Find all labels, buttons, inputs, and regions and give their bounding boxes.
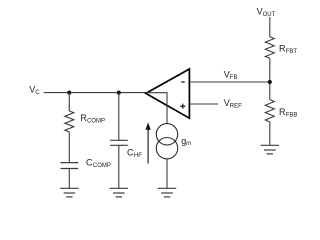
wire op-amp output to current source (L shape): [146, 93, 167, 124]
node feedback junction: [268, 80, 272, 84]
wire RFBT to feedback node: [269, 58, 271, 99]
resistor RFBT: [265, 37, 274, 59]
node Vc label: [29, 85, 40, 96]
current source arrow: [146, 122, 151, 163]
capacitor CHF: [110, 140, 128, 145]
resistor RCOMP: [65, 111, 74, 132]
wire J2 down to CHF: [118, 93, 120, 141]
label RCOMP: [80, 113, 105, 124]
op-amp non-inverting input plus sign: [180, 104, 185, 109]
svg-text:OUT: OUT: [263, 12, 276, 18]
svg-text:m: m: [186, 141, 191, 147]
svg-text:COMP: COMP: [87, 118, 105, 124]
label VFB: [224, 69, 238, 81]
label VOUT: [257, 7, 276, 18]
svg-text:HF: HF: [134, 153, 142, 159]
current source gm circle bottom: [156, 138, 177, 159]
op-amp U1 error amplifier triangle: [146, 69, 190, 118]
svg-text:FB: FB: [230, 75, 238, 81]
wire current source to ground: [166, 159, 168, 188]
wire main horizontal VC rail: [44, 92, 147, 94]
label gm: [181, 136, 191, 147]
wire VFB from inverting input to feedback node: [190, 81, 270, 83]
svg-text:REF: REF: [230, 104, 242, 110]
ground under RFBB: [261, 145, 279, 154]
op-amp inverting input minus sign: [181, 81, 185, 83]
label RFBB: [279, 107, 297, 118]
svg-text:FBB: FBB: [286, 113, 298, 119]
svg-text:FBT: FBT: [286, 49, 298, 55]
ground under current source: [158, 188, 176, 197]
ground under CHF: [110, 188, 128, 197]
node junction J2: [117, 91, 121, 95]
label RFBT: [279, 44, 297, 55]
wire CCOMP to ground: [68, 169, 70, 189]
node junction J1: [67, 91, 71, 95]
wire CHF to ground: [118, 145, 120, 188]
resistor RFBB: [265, 100, 274, 122]
wire J1 down to RCOMP: [68, 93, 70, 112]
svg-text:COMP: COMP: [93, 163, 111, 169]
label CCOMP: [86, 157, 111, 168]
wire RFBB to ground: [269, 122, 271, 145]
label VREF: [224, 98, 242, 109]
current source gm circle top: [156, 124, 177, 145]
svg-text:C: C: [35, 90, 40, 96]
label CHF: [127, 148, 142, 159]
wire VOUT to RFBT: [269, 17, 271, 37]
ground under CCOMP: [60, 188, 78, 197]
capacitor CCOMP: [61, 163, 79, 169]
wire VREF stub from non-inverting input: [190, 103, 218, 105]
wire RCOMP to CCOMP: [68, 132, 70, 163]
